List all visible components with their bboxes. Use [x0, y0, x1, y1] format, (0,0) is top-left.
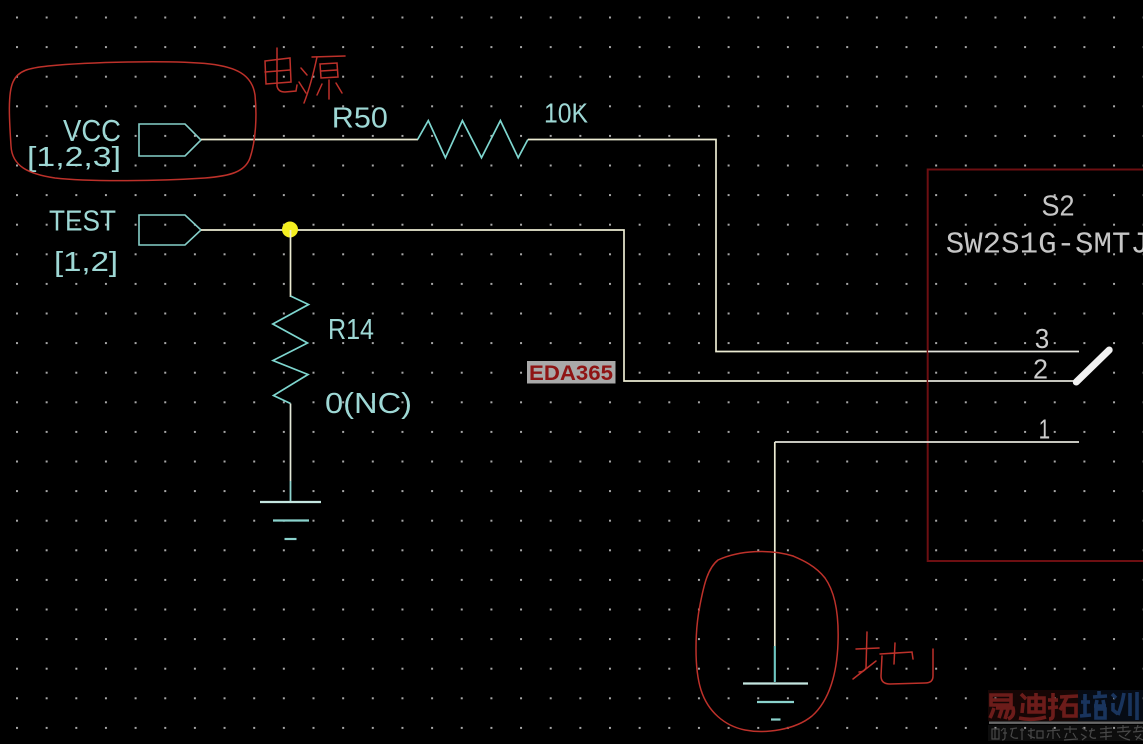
watermark logo 易迪拓培训 [988, 690, 1143, 724]
annotation ellipse around VCC port [9, 62, 256, 181]
wire R50 to S2 pin 3 [528, 140, 928, 352]
svg-text:10K: 10K [544, 98, 588, 129]
pin 2 of S2 [928, 380, 1080, 382]
wire junction to S2 pin 2 [290, 230, 928, 381]
annotation text 地 (ground) [853, 632, 933, 684]
svg-text:[1,2,3]: [1,2,3] [27, 141, 121, 172]
svg-text:R14: R14 [328, 314, 374, 346]
watermark slogan 射频和天线设计专家 [988, 725, 1143, 741]
svg-text:R50: R50 [332, 103, 388, 135]
pin 1 of S2 [775, 441, 1079, 443]
svg-text:TEST: TEST [49, 206, 116, 238]
switch lever [1076, 350, 1109, 382]
switch S2 body box [928, 170, 1143, 562]
wire TEST to junction [201, 229, 290, 231]
ground stub (cyan) [774, 646, 776, 682]
wire junction to R14 [290, 230, 292, 297]
ground symbol (R14) [260, 502, 321, 539]
junction node TEST [282, 222, 298, 238]
ground symbol (S2 pin 1) [743, 684, 808, 720]
svg-text:2: 2 [1033, 353, 1048, 384]
wire R14 to ground [290, 404, 292, 482]
svg-text:EDA365: EDA365 [529, 362, 613, 385]
resistor R50 [418, 121, 528, 158]
annotation text 电源 (power) [265, 48, 345, 103]
wire S2 pin 1 to ground [774, 442, 776, 681]
hierarchical port TEST [139, 215, 201, 245]
annotation ellipse around ground [696, 551, 838, 731]
svg-text:1: 1 [1039, 414, 1051, 445]
wire VCC to R50 [201, 139, 418, 141]
svg-text:[1,2]: [1,2] [54, 246, 118, 277]
pin 3 of S2 [928, 351, 1079, 353]
svg-text:SW2S1G-SMTJ: SW2S1G-SMTJ [946, 228, 1143, 263]
svg-text:3: 3 [1035, 323, 1050, 354]
svg-text:0(NC): 0(NC) [325, 388, 412, 420]
EDA365 watermark label [527, 361, 616, 385]
resistor R14 [273, 296, 309, 404]
svg-text:S2: S2 [1042, 191, 1075, 223]
hierarchical port VCC [139, 124, 201, 156]
